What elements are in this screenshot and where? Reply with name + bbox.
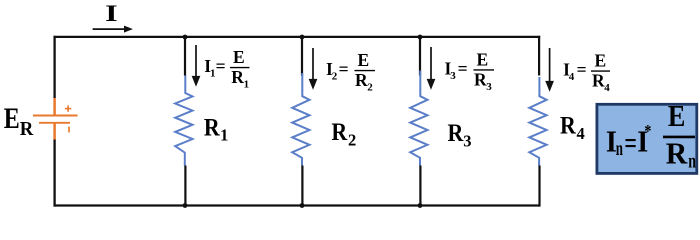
svg-text:E: E	[477, 49, 489, 69]
svg-text:E: E	[595, 51, 607, 71]
svg-text:R: R	[204, 112, 220, 141]
wire: branch 2 lower	[301, 166, 303, 206]
current arrow I2	[309, 48, 318, 90]
svg-text:3: 3	[486, 81, 492, 93]
label R3	[448, 118, 472, 150]
wire: branch 2 upper	[301, 37, 303, 76]
battery E_R positive plate (long)	[33, 115, 78, 117]
svg-text:4: 4	[577, 124, 585, 143]
svg-text:E: E	[358, 50, 370, 70]
node: bottom junction branch 1	[183, 203, 188, 208]
svg-text:3: 3	[450, 70, 456, 82]
node: bottom junction branch 2	[300, 203, 305, 208]
svg-text:R: R	[592, 71, 605, 91]
svg-text:2: 2	[332, 71, 338, 83]
battery minus dash (vertical tick)	[68, 127, 70, 133]
wire: branch 1 lower	[184, 166, 186, 206]
label E_R	[4, 102, 34, 140]
current arrow I3	[427, 47, 436, 90]
svg-text:R: R	[448, 118, 464, 147]
resistor R3 (zigzag)	[410, 71, 427, 166]
svg-text:=: =	[458, 59, 468, 79]
formula box In = I* E/Rn	[597, 98, 697, 173]
formula I4 = E/R4	[563, 51, 610, 95]
svg-text:R: R	[474, 69, 487, 89]
resistor R1 (zigzag)	[175, 76, 192, 166]
label R4	[560, 111, 585, 143]
svg-text:3: 3	[463, 131, 471, 150]
svg-text:2: 2	[348, 130, 356, 149]
node: bottom junction branch 3	[418, 203, 423, 208]
wire: bottom bus return	[54, 204, 540, 206]
svg-text:=: =	[339, 59, 349, 79]
battery E_R negative plate (short)	[39, 122, 70, 124]
svg-text:E: E	[4, 102, 20, 135]
formula I2 = E/R2	[326, 50, 375, 94]
svg-text:4: 4	[604, 82, 610, 94]
svg-text:n: n	[616, 136, 623, 160]
svg-text:E: E	[668, 98, 686, 133]
wire: branch 4 upper (right edge)	[538, 36, 540, 76]
svg-text:1: 1	[220, 126, 228, 145]
svg-text:R: R	[355, 70, 368, 90]
svg-text:I: I	[105, 1, 118, 26]
svg-text:R: R	[331, 117, 347, 146]
wire: branch 4 lower (right edge)	[538, 166, 540, 207]
svg-text:E: E	[233, 47, 245, 67]
svg-text:R: R	[20, 118, 34, 140]
svg-text:1: 1	[244, 79, 250, 91]
svg-text:R: R	[560, 111, 576, 140]
battery plus sign	[65, 105, 71, 111]
node: top junction branch 3	[418, 35, 423, 40]
svg-text:4: 4	[569, 71, 575, 83]
formula I3 = E/R3	[445, 49, 495, 93]
current arrow I1	[192, 45, 201, 87]
battery E_R negative lead (orange)	[53, 124, 56, 140]
svg-text:2: 2	[367, 82, 373, 94]
wire: branch 3 lower	[419, 166, 421, 206]
svg-text:=: =	[624, 125, 637, 160]
wire: branch 1 upper	[184, 37, 186, 76]
formula I1 = E/R1	[204, 47, 249, 91]
svg-text:=: =	[216, 56, 226, 76]
label R1	[204, 112, 228, 144]
node: top junction branch 1	[183, 35, 188, 40]
wire: left vertical from top bus to battery + terminal	[53, 36, 55, 98]
svg-text:R: R	[666, 136, 688, 171]
current arrow I (rightward)	[93, 26, 133, 33]
wire: branch 3 upper	[419, 37, 421, 76]
battery E_R positive lead (orange)	[53, 98, 56, 115]
resistor R4 (zigzag)	[529, 77, 546, 166]
node: top junction branch 2	[300, 35, 305, 40]
svg-text:R: R	[231, 67, 244, 87]
resistor R2 (zigzag)	[292, 73, 309, 166]
wire: top bus from battery to branch 4	[54, 36, 541, 38]
current arrow I4	[545, 48, 554, 92]
label R2	[331, 117, 356, 149]
svg-text:*: *	[644, 122, 651, 141]
svg-text:=: =	[577, 59, 587, 79]
svg-text:n: n	[688, 149, 696, 173]
wire: left vertical from battery - terminal to bottom bus	[53, 140, 55, 207]
